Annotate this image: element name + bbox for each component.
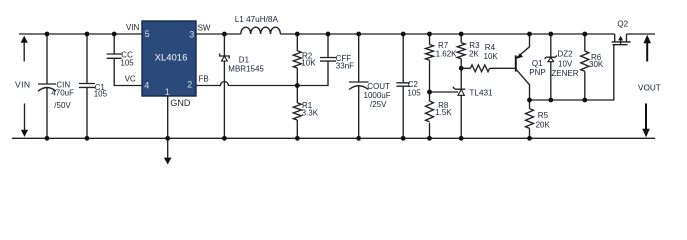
svg-text:1.62K: 1.62K	[436, 49, 458, 58]
svg-text:VIN: VIN	[15, 79, 30, 89]
svg-text:ZENER: ZENER	[551, 69, 578, 78]
svg-text:105: 105	[407, 88, 421, 97]
svg-text:XL4016: XL4016	[155, 53, 188, 64]
svg-text:10K: 10K	[484, 52, 499, 61]
svg-text:VOUT: VOUT	[638, 84, 661, 93]
svg-text:105: 105	[94, 89, 108, 98]
svg-text:GND: GND	[170, 98, 191, 108]
svg-text:D1: D1	[239, 55, 250, 64]
svg-text:MBR1545: MBR1545	[228, 64, 264, 73]
svg-text:SW: SW	[198, 23, 211, 32]
svg-text:/25V: /25V	[370, 100, 387, 109]
svg-text:5: 5	[145, 29, 150, 39]
svg-text:R4: R4	[485, 43, 496, 52]
svg-text:30K: 30K	[589, 60, 604, 69]
svg-text:1000uF: 1000uF	[364, 91, 391, 100]
svg-text:/50V: /50V	[54, 101, 71, 110]
svg-text:470uF: 470uF	[51, 89, 74, 98]
svg-text:20K: 20K	[536, 120, 551, 129]
svg-text:VIN: VIN	[126, 23, 140, 32]
svg-text:TL431: TL431	[469, 88, 493, 97]
svg-text:PNP: PNP	[529, 68, 545, 77]
svg-text:1.5K: 1.5K	[435, 108, 452, 117]
svg-text:105: 105	[120, 58, 134, 67]
svg-text:33nF: 33nF	[336, 62, 354, 71]
svg-text:10V: 10V	[558, 59, 573, 68]
svg-text:R5: R5	[538, 111, 549, 120]
svg-text:1: 1	[165, 87, 170, 97]
svg-text:2: 2	[187, 80, 192, 90]
svg-text:DZ2: DZ2	[558, 50, 574, 59]
svg-text:Q1: Q1	[532, 59, 543, 68]
svg-text:Q2: Q2	[617, 20, 628, 29]
svg-text:4: 4	[144, 80, 149, 90]
svg-text:10K: 10K	[301, 59, 316, 68]
svg-text:L1 47uH/8A: L1 47uH/8A	[235, 15, 279, 24]
svg-text:COUT: COUT	[367, 82, 390, 91]
svg-text:VC: VC	[125, 74, 136, 83]
svg-text:3.3K: 3.3K	[302, 109, 319, 118]
svg-text:2K: 2K	[469, 49, 479, 58]
svg-text:FB: FB	[199, 75, 209, 84]
svg-text:3: 3	[189, 30, 194, 40]
